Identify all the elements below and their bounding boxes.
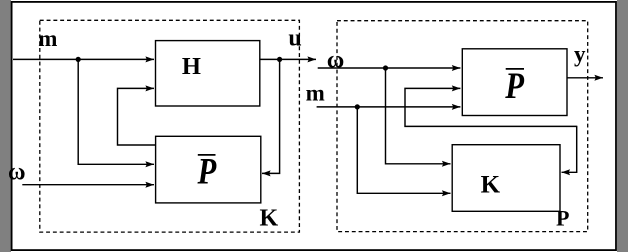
wire m input right xyxy=(317,106,461,108)
wire feedback loop to P-bar input 2 xyxy=(405,88,577,126)
label P-bar (left) xyxy=(197,152,217,192)
svg-text:u: u xyxy=(288,25,301,51)
block H xyxy=(156,41,260,106)
wire m to K right xyxy=(357,107,450,193)
wire u feedback to P-bar xyxy=(262,59,280,173)
wire P-bar output to H xyxy=(118,88,156,145)
dashed box K (left diagram) xyxy=(40,20,300,232)
wire H output u xyxy=(260,58,316,60)
svg-text:H: H xyxy=(182,53,201,80)
wire y output xyxy=(567,77,603,79)
junction dot omega right xyxy=(383,65,388,70)
wire feedback loop to K input xyxy=(562,126,577,173)
svg-text:P: P xyxy=(504,66,524,106)
svg-text:ω: ω xyxy=(327,48,345,74)
dashed box P (right diagram) xyxy=(337,21,588,232)
wire omega to K right xyxy=(386,68,451,164)
junction dot u xyxy=(277,57,282,62)
block P-bar (right) xyxy=(462,49,567,116)
label P-bar (right) xyxy=(504,66,524,106)
block K (right) xyxy=(452,145,560,212)
svg-text:m: m xyxy=(38,26,57,51)
gray band left xyxy=(0,0,11,252)
junction dot m xyxy=(76,57,81,62)
svg-text:K: K xyxy=(481,171,501,198)
wire omega input xyxy=(22,184,154,186)
wire m input xyxy=(13,58,154,60)
block P-bar (left) xyxy=(156,136,261,203)
svg-text:P: P xyxy=(556,206,569,231)
svg-text:P: P xyxy=(197,152,217,192)
wire m to P-bar xyxy=(78,59,154,164)
gray band right xyxy=(617,0,628,252)
svg-text:y: y xyxy=(574,42,586,67)
svg-text:K: K xyxy=(260,206,279,232)
svg-text:m: m xyxy=(306,81,325,106)
wire omega input right xyxy=(318,67,461,69)
svg-text:ω: ω xyxy=(8,160,26,186)
junction dot m right xyxy=(355,104,360,109)
